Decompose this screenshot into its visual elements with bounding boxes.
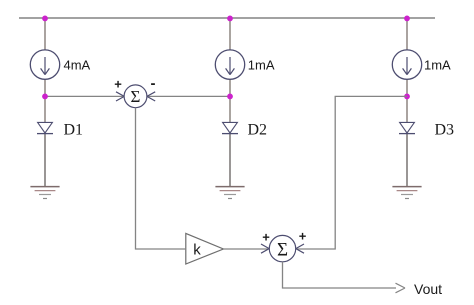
node top1 [42,16,48,22]
label 1mA (I2) [248,58,275,73]
svg-text:+: + [299,229,307,244]
svg-text:Σ: Σ [131,87,141,106]
svg-text:D1: D1 [64,122,84,139]
arrowhead Vout [396,283,406,293]
gain block k [186,233,224,264]
arrowhead into U2 right [296,244,304,253]
ground G3 [392,187,421,199]
summing junction U2 [269,235,295,261]
arrowhead into U2 left [261,244,269,253]
label 1mA (I3) [424,58,451,73]
wire gain block to summer U2 [223,248,268,250]
wire column2 vertical segments [229,18,231,187]
wire top bus [19,17,435,19]
ground G1 [30,187,59,199]
node top3 [404,16,410,22]
wire node2 to summer U1 [148,95,230,97]
summing junction U1 [124,85,147,108]
current source I3 [392,50,421,79]
svg-text:Σ: Σ [277,240,288,261]
wire U2 output to Vout [283,262,397,288]
label D1 [64,122,84,139]
ground G2 [215,187,244,199]
label + right (U2) [299,229,307,244]
label - (U1) [151,75,156,92]
label D2 [248,122,268,139]
label + (U1) [114,77,122,92]
node mid2 [227,94,233,100]
svg-text:+: + [262,230,270,245]
wire column3 vertical segments [406,18,408,187]
svg-text:-: - [151,75,156,92]
current source I2 [215,50,244,79]
svg-text:4mA: 4mA [64,58,91,73]
node top2 [227,16,233,22]
label D3 [435,122,455,139]
svg-text:D3: D3 [435,122,455,139]
svg-text:D2: D2 [248,122,268,139]
arrowhead into U1 right [147,92,155,101]
current source I1 [30,50,59,79]
wire U1 output down and right to gain block [136,108,186,249]
svg-text:+: + [114,77,122,92]
wire node1 to summer U1 [45,95,123,97]
node mid3 [404,94,410,100]
svg-text:1mA: 1mA [424,58,451,73]
diode D2 [222,122,238,133]
node mid1 [42,94,48,100]
label + left (U2) [262,230,270,245]
diode D3 [399,122,415,133]
arrowhead into U1 left [116,92,124,101]
wire column1 vertical segments [44,18,46,187]
svg-text:Vout: Vout [414,281,442,297]
svg-text:1mA: 1mA [248,58,275,73]
wire node3 branch to U2 [297,96,407,249]
diode D1 [37,122,53,133]
label 4mA [64,58,91,73]
label Vout [414,281,442,297]
svg-text:k: k [193,242,201,259]
